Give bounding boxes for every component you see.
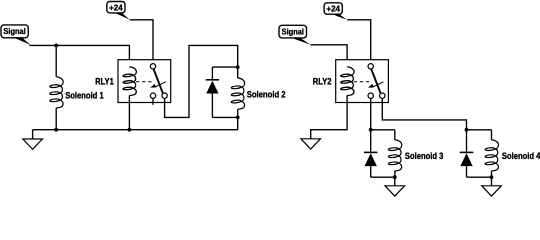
relay box — [336, 60, 389, 103]
node junction signal/solenoid1 — [54, 44, 58, 48]
node Signal (left callout) — [1, 25, 31, 45]
svg-text:RLY1: RLY1 — [95, 77, 114, 87]
ground G3 — [385, 177, 405, 196]
wire relay1 NO pin to Solenoid 2 top — [165, 45, 238, 117]
relay arrow — [373, 82, 384, 87]
wire relay2 NC pin down to sol3 — [370, 98, 372, 129]
svg-text:+24: +24 — [326, 4, 340, 14]
relay pin common — [368, 64, 373, 69]
svg-text:+24: +24 — [109, 2, 123, 12]
node junction relay1 coil/rail — [127, 128, 131, 132]
wire sol3 branch top — [371, 129, 395, 131]
relay coil — [123, 67, 137, 96]
wire relay2 coil bottom to ground — [311, 95, 347, 139]
relay coil — [341, 67, 355, 96]
svg-text:Solenoid 1: Solenoid 1 — [65, 90, 104, 100]
wire sol4 branch bottom — [467, 176, 492, 178]
node junction Solenoid1/rail — [54, 128, 58, 132]
relay pin common — [150, 64, 155, 69]
relay U RLY2 — [336, 60, 389, 103]
relay pin NO — [380, 93, 385, 98]
solenoid L4 coil (Solenoid 4) — [485, 130, 499, 177]
node junction sol2 bottom — [236, 116, 240, 120]
ground G4 — [482, 177, 502, 196]
relay box — [118, 60, 171, 103]
wire ground rail — [33, 117, 238, 129]
wire +24 to relay common — [130, 20, 153, 64]
wire sol3 branch bottom — [371, 176, 395, 178]
node junction sol4 bottom — [490, 175, 494, 179]
wire sol4 branch top — [467, 129, 492, 131]
wire relay2 NO pin to sol4 — [382, 98, 466, 129]
relay dashed actuation line — [354, 81, 370, 83]
wire signal horizontal to relay coil — [30, 45, 130, 67]
svg-text:Solenoid 2: Solenoid 2 — [247, 90, 286, 100]
diode D2 — [206, 67, 219, 117]
node junction sol2 top — [236, 65, 240, 69]
solenoid L1 coil (Solenoid 1) — [50, 77, 64, 108]
wire +24 right to relay2 common — [347, 20, 371, 64]
svg-text:Solenoid 4: Solenoid 4 — [502, 151, 540, 161]
wire Solenoid 1 bottom to ground rail — [55, 108, 57, 130]
svg-text:Signal: Signal — [282, 27, 304, 37]
diode D3 — [364, 130, 377, 177]
relay switch arm — [154, 69, 163, 93]
node Signal (right callout) — [279, 25, 311, 44]
wire sol2 top to diode D2 — [212, 66, 237, 68]
relay dashed actuation line — [136, 81, 152, 83]
node +24 (left callout) — [107, 2, 130, 20]
node junction sol3 top — [369, 128, 373, 132]
node junction sol3 bottom — [393, 175, 397, 179]
svg-text:RLY2: RLY2 — [313, 77, 332, 87]
node junction sol4 top — [465, 128, 469, 132]
wire sol2 bottom — [212, 116, 237, 118]
wire relay1 coil bottom to rail — [128, 95, 130, 129]
wire signal2 to relay2 coil — [311, 45, 348, 67]
relay pin NC — [150, 93, 155, 98]
ground G1 — [23, 130, 43, 150]
node +24 (right callout) — [324, 3, 347, 20]
solenoid L3 coil (Solenoid 3) — [388, 130, 402, 177]
relay pin NO — [162, 93, 167, 98]
wire junction down to Solenoid 1 — [55, 45, 57, 76]
ground G2 — [301, 139, 321, 149]
relay switch arm — [371, 69, 380, 93]
solenoid L2 coil (Solenoid 2) — [231, 67, 245, 117]
relay arrow — [155, 82, 166, 87]
svg-text:Solenoid 3: Solenoid 3 — [405, 151, 444, 161]
relay pin NC — [368, 93, 373, 98]
diode D4 — [460, 130, 473, 177]
relay U RLY1 — [118, 60, 171, 103]
svg-text:Signal: Signal — [3, 26, 25, 36]
wire stub NC pin — [152, 98, 154, 104]
